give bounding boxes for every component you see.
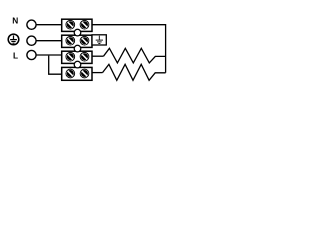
terminal circle L [27, 50, 36, 59]
wire N to row1 [36, 24, 62, 26]
wire row3 to element R1 [92, 55, 104, 57]
heating element R1 (top zigzag) [104, 48, 166, 63]
terminal circle N [27, 20, 36, 29]
wire row1 to right bus [92, 25, 166, 73]
earth symbol PE [8, 34, 19, 45]
svg-text:N: N [12, 16, 18, 26]
mounting hole 3 [74, 61, 81, 68]
terminal block row1 [62, 19, 92, 31]
terminal block row3 [62, 51, 92, 63]
terminal block row4 [62, 67, 92, 80]
wire PE to row2 [36, 40, 62, 42]
wire L to row3 [36, 54, 62, 56]
svg-text:L: L [13, 51, 18, 61]
heating element R2 (bottom zigzag) [103, 64, 166, 80]
terminal circle PE [27, 36, 36, 45]
terminal block row2 [62, 35, 92, 47]
mounting hole 1 [74, 29, 81, 36]
earth terminal box on row2 [92, 35, 106, 45]
jumper wire row3 to row4 [49, 56, 62, 75]
wire row4 to element R2 [92, 72, 103, 74]
mounting hole 2 [74, 45, 81, 52]
